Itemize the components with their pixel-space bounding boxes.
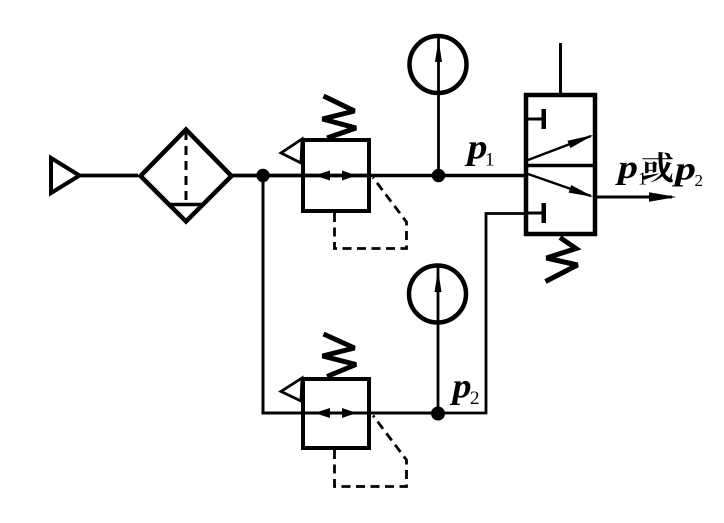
pressure reducing valve 2 vent triangle — [281, 378, 302, 401]
svg-text:p: p — [671, 151, 696, 187]
air supply source triangle — [51, 158, 80, 193]
selector valve divider — [526, 164, 595, 168]
pressure gauge 1 line — [437, 38, 440, 176]
bottom main wire through regulator 2 — [303, 412, 438, 415]
wire node p2 riser to valve lower port — [438, 214, 526, 414]
wire node p1 to valve — [438, 174, 526, 177]
junction node p2 — [431, 407, 445, 421]
selector valve upper flow arrow — [528, 135, 594, 160]
junction node A — [256, 169, 269, 182]
pressure reducing valve 2 pilot dashed line — [335, 416, 407, 487]
label p1 — [464, 128, 494, 171]
pressure reducing valve 2 body — [303, 379, 369, 448]
output wire with arrow — [595, 192, 677, 201]
selector valve top pilot line — [559, 43, 562, 95]
wire regulator 1 to node p1 — [369, 174, 438, 177]
filter with water separator — [141, 130, 232, 222]
wire filter to node A — [231, 174, 263, 178]
selector valve body — [526, 95, 595, 234]
pressure reducing valve 1 spring — [323, 96, 357, 138]
pressure gauge 1 — [410, 36, 467, 93]
pressure gauge 2 line — [437, 267, 440, 413]
pressure reducing valve 2 spring — [323, 334, 357, 377]
wire supply to filter — [80, 174, 138, 178]
pressure reducing valve 1 flow line — [303, 174, 369, 178]
pressure reducing valve 1 vent triangle — [281, 139, 302, 163]
selector valve lower flow arrow — [528, 174, 594, 197]
pressure gauge 2 — [409, 266, 466, 323]
pressure reducing valve 1 pilot dashed line — [335, 178, 407, 249]
svg-text:p: p — [614, 150, 638, 186]
selector valve bottom spring — [546, 238, 578, 282]
svg-text:1: 1 — [485, 150, 495, 171]
svg-text:2: 2 — [470, 388, 480, 409]
selector valve lower port T — [526, 203, 546, 223]
junction node p1 — [432, 169, 445, 182]
pressure reducing valve 2 arrowheads — [315, 408, 357, 418]
svg-text:2: 2 — [695, 171, 704, 190]
svg-text:p: p — [464, 128, 487, 167]
label p2 — [449, 367, 479, 410]
pressure reducing valve 1 body — [303, 140, 369, 211]
wire branch down from node A — [263, 176, 303, 414]
pressure reducing valve 1 arrowheads — [315, 171, 357, 181]
label p1 or p2 output — [614, 150, 703, 190]
selector valve upper port T — [526, 109, 546, 129]
svg-text:p: p — [449, 367, 471, 406]
wire node A to regulator 1 — [263, 174, 303, 178]
